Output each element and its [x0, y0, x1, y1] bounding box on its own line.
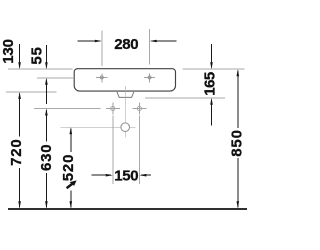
extension line 280 right — [149, 29, 151, 65]
fixing hole crosshair right — [133, 103, 147, 115]
extension line 150 left — [112, 116, 114, 184]
dimension 520 line — [70, 127, 73, 208]
dimension 720 line — [18, 92, 21, 208]
svg-text:55: 55 — [29, 46, 46, 64]
dimension 165 arrows — [210, 44, 213, 126]
svg-text:630: 630 — [38, 144, 55, 171]
label 850 mask — [231, 128, 244, 158]
drain boss trapezoid — [117, 92, 134, 98]
label 720 mask — [10, 137, 23, 169]
svg-text:720: 720 — [8, 138, 25, 165]
svg-text:150: 150 — [114, 167, 138, 184]
dimension 630 line — [45, 109, 48, 209]
svg-text:280: 280 — [114, 36, 138, 53]
svg-text:165: 165 — [201, 72, 218, 96]
extension line basin-top left — [8, 68, 73, 70]
tap hole crosshair right — [144, 73, 155, 82]
dimension 55 lower arrow — [45, 78, 48, 104]
adjustable-height arrow glyph — [67, 180, 77, 188]
dimension 280 arrows — [78, 40, 177, 43]
floor line — [8, 208, 247, 210]
extension line deck 55 ref — [37, 77, 73, 79]
extension line 150 right — [138, 116, 140, 184]
extension line basin-top right — [183, 68, 245, 70]
siphon horizontal centerline 520 ref — [60, 126, 135, 128]
tap hole crosshair left — [96, 73, 107, 82]
dimension 130 arrow — [18, 44, 21, 69]
basin outline — [74, 69, 175, 91]
extension line fixing holes 630 ref — [34, 108, 100, 110]
svg-text:130: 130 — [0, 39, 17, 63]
fixing hole crosshair left — [106, 103, 120, 115]
svg-text:850: 850 — [229, 129, 246, 156]
extension line drain bottom 165 ref — [145, 97, 225, 99]
extension line 130/720 ref — [6, 91, 57, 93]
svg-text:520: 520 — [60, 154, 77, 181]
dimension 850 line — [237, 69, 240, 208]
siphon vertical centerline — [124, 86, 126, 138]
extension line 280 left — [101, 31, 103, 67]
siphon outlet circle — [121, 123, 130, 132]
dimension 55 arrow — [45, 45, 48, 69]
dimension 150 arrows — [91, 174, 151, 177]
label 630 mask — [40, 142, 53, 174]
